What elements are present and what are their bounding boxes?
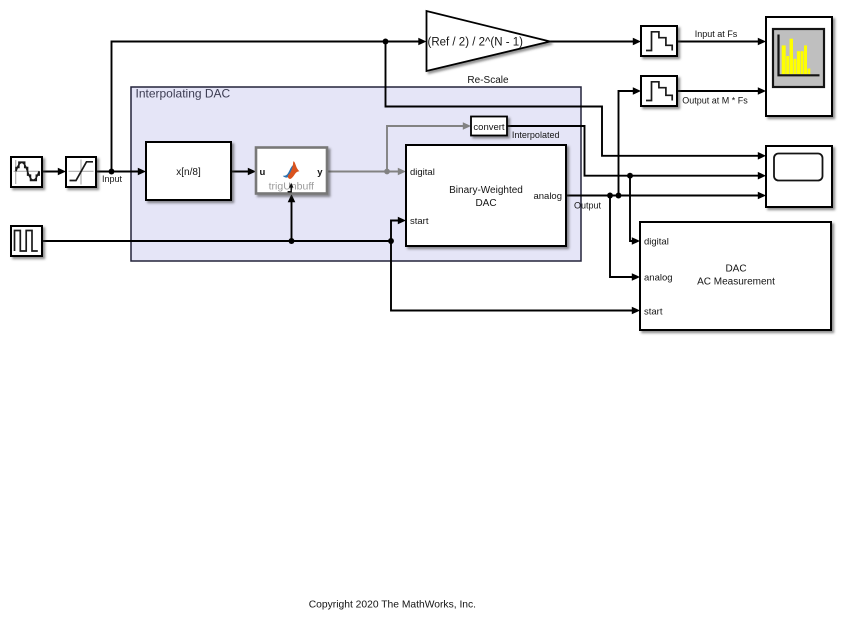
svg-text:x[n/8]: x[n/8] [176,167,201,178]
svg-text:Re-Scale: Re-Scale [467,75,509,86]
svg-text:u: u [260,167,266,178]
svg-text:Binary-Weighted: Binary-Weighted [449,185,523,196]
svg-text:Input at Fs: Input at Fs [695,29,738,39]
svg-text:DAC: DAC [725,264,746,275]
svg-text:Output: Output [574,201,602,211]
svg-text:(Ref / 2) / 2^(N - 1): (Ref / 2) / 2^(N - 1) [428,36,524,48]
svg-text:digital: digital [410,167,435,178]
svg-text:Interpolating DAC: Interpolating DAC [136,87,231,101]
svg-text:analog: analog [644,272,673,283]
svg-text:Input: Input [102,174,123,184]
svg-text:digital: digital [644,236,669,247]
svg-text:Interpolated: Interpolated [512,130,560,140]
svg-text:DAC: DAC [475,198,496,209]
svg-text:start: start [644,306,663,317]
svg-text:Copyright 2020 The MathWorks,: Copyright 2020 The MathWorks, Inc. [309,600,476,611]
svg-text:AC Measurement: AC Measurement [697,277,775,288]
svg-text:convert: convert [473,122,505,133]
svg-text:start: start [410,216,429,227]
svg-text:analog: analog [533,191,562,202]
svg-text:Output at M * Fs: Output at M * Fs [682,96,748,106]
svg-text:y: y [317,167,323,178]
